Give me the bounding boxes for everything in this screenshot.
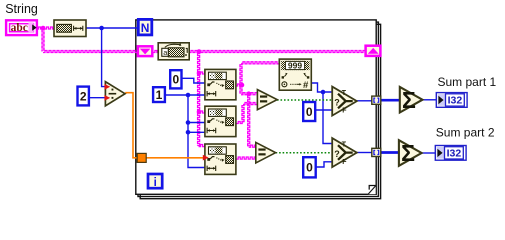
svg-text:999: 999: [288, 60, 302, 70]
svg-text:I32: I32: [447, 148, 462, 160]
svg-text:0: 0: [306, 105, 313, 119]
svg-text:0: 0: [173, 73, 180, 87]
svg-text:1: 1: [156, 88, 163, 102]
svg-text:N: N: [141, 21, 150, 35]
svg-text:I32: I32: [448, 95, 463, 107]
svg-text:?: ?: [334, 98, 340, 108]
svg-text:String: String: [5, 2, 38, 16]
svg-text:?: ?: [334, 149, 340, 159]
svg-text:F: F: [342, 108, 347, 115]
svg-text:F: F: [342, 159, 347, 166]
svg-text:T: T: [342, 141, 347, 148]
svg-text:T: T: [342, 90, 347, 97]
svg-text:i: i: [154, 177, 157, 189]
svg-text:Σ: Σ: [402, 87, 416, 113]
svg-text:abc: abc: [11, 22, 28, 34]
svg-text:Sum part 1: Sum part 1: [438, 75, 497, 89]
svg-text:0: 0: [306, 161, 313, 175]
svg-text:Sum part 2: Sum part 2: [436, 126, 495, 140]
svg-text:Σ: Σ: [401, 140, 415, 166]
svg-text:2: 2: [80, 89, 87, 103]
svg-text:#: #: [303, 80, 309, 91]
